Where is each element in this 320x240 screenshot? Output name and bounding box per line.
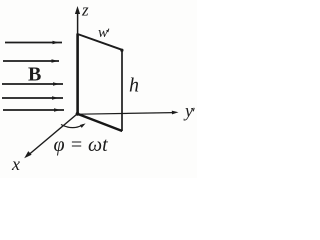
prime tick after y: [193, 108, 194, 112]
field arrow B line 1: [5, 41, 62, 44]
loop top edge: [78, 34, 123, 50]
origin junction knot: [76, 112, 80, 116]
svg-text:w: w: [98, 25, 108, 41]
field arrow B line 4: [2, 96, 63, 99]
svg-text:y: y: [183, 101, 193, 121]
field arrow B line 5: [3, 108, 64, 111]
loop bottom edge: [77, 114, 122, 131]
svg-text:φ = ωt: φ = ωt: [54, 134, 109, 156]
angle arc phi: [61, 123, 86, 128]
field arrow B line 2: [3, 59, 59, 62]
field arrow B line 3: [2, 82, 63, 85]
prime tick after w: [108, 29, 109, 32]
loop right edge: [121, 50, 123, 132]
loop corner top-right blob: [120, 49, 123, 52]
z axis: [75, 6, 80, 36]
x axis: [24, 115, 76, 159]
svg-text:z: z: [81, 1, 89, 20]
y axis: [79, 111, 179, 115]
svg-text:x: x: [11, 154, 20, 174]
svg-text:h: h: [129, 75, 139, 97]
svg-text:B: B: [28, 64, 41, 86]
loop left edge (on z axis): [76, 34, 79, 115]
